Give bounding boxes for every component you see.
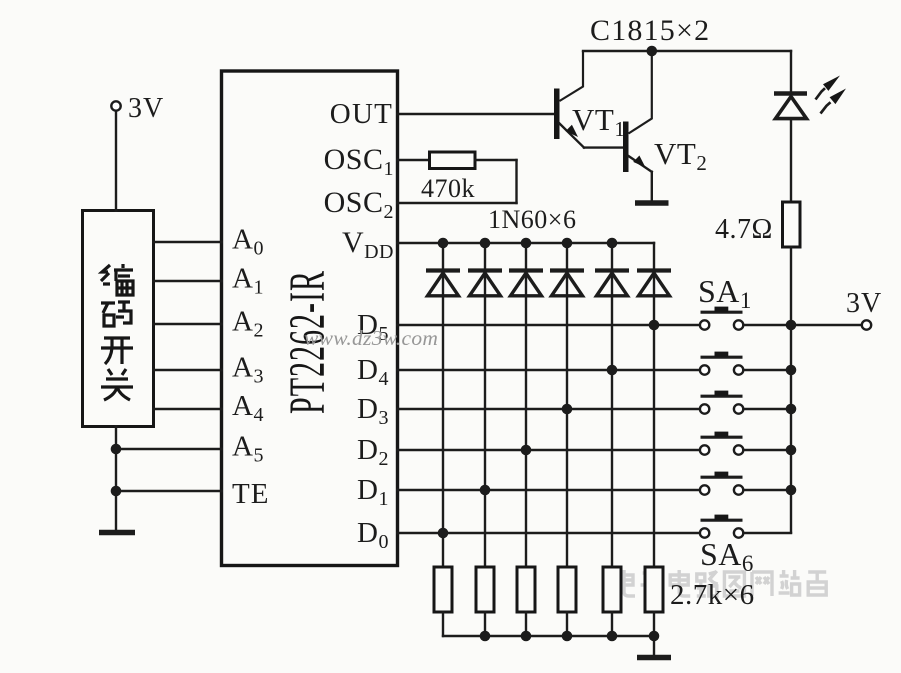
wire column 5 vertical [611, 243, 613, 567]
wire SA2 to right rail [743, 369, 791, 371]
diode VD4 (1N60) bar [550, 268, 584, 272]
encoder box label char 编 [101, 264, 133, 295]
switch SA5 right terminal [734, 485, 743, 494]
node junction TE [111, 486, 122, 497]
wire encoder box to pin A2 [154, 323, 222, 325]
wire SA4 to right rail [743, 449, 791, 451]
switch SA2 right terminal [734, 365, 743, 374]
switch SA3 left terminal [700, 404, 709, 413]
node junction VDD column 4 [562, 238, 573, 249]
node junction bottom rail [607, 631, 618, 642]
transistor Q2 VT2 base bar [623, 122, 629, 173]
transistor Q1 VT1 collector [560, 51, 584, 101]
wire column 2 vertical [484, 243, 486, 567]
wire bottom rail [443, 635, 654, 637]
wire OSC1 to resistor [398, 159, 431, 161]
wire A5 to left vertical [116, 448, 222, 450]
wire bottom rail to ground [653, 636, 655, 655]
node junction right rail [786, 445, 797, 456]
node 3V supply (right) [862, 320, 871, 329]
wire loop vertical [515, 160, 517, 203]
svg-text:OUT: OUT [330, 98, 393, 130]
resistor R6 (2.7k) [645, 567, 663, 612]
wire resistor 4.7 to 3V rail [790, 247, 792, 325]
LED emission arrow 2 [821, 102, 831, 113]
node junction VDD column 3 [521, 238, 532, 249]
ground (VT2 emitter) [635, 200, 669, 206]
wire SA6 to right rail [743, 532, 791, 534]
transistor Q1 VT1 emitter [560, 124, 585, 148]
wire right rail vertical [790, 325, 792, 533]
svg-text:1N60×6: 1N60×6 [488, 205, 576, 234]
node 3V supply (left) [111, 101, 120, 110]
transistor Q2 VT2 collector [629, 51, 652, 134]
switch SA6 left terminal [700, 528, 709, 537]
LED VD (IR emitting diode) cathode bar [774, 91, 807, 96]
wire encoder box to pin A4 [154, 408, 222, 410]
wire OUT to VT1 base [398, 113, 555, 115]
LED VD triangle [776, 97, 807, 119]
switch SA1 button [701, 311, 743, 314]
wire column 4 vertical [566, 243, 568, 567]
watermark chinese site name [615, 570, 826, 596]
wire R6 to bottom rail [653, 612, 655, 636]
node junction right rail [786, 365, 797, 376]
svg-text:3V: 3V [846, 288, 882, 319]
wire pin D2 to switch SA4 [398, 449, 700, 451]
wire pin D5 to switch SA1 [398, 324, 700, 326]
wire collector rail (top) [583, 50, 791, 52]
wire pin D1 to switch SA5 [398, 489, 700, 491]
switch SA2 button [701, 356, 743, 359]
resistor R2 (2.7k) [476, 567, 494, 612]
diode VD3 (1N60) triangle [511, 273, 542, 296]
diode VD1 (1N60) triangle [428, 273, 459, 296]
diode VD5 (1N60) triangle [597, 273, 628, 296]
svg-text:OSC1: OSC1 [324, 143, 394, 180]
switch SA4 button [701, 436, 743, 439]
switch SA2 left terminal [700, 365, 709, 374]
switch SA6 right terminal [734, 528, 743, 537]
svg-text:TE: TE [232, 478, 269, 510]
diode VD3 (1N60) bar [509, 268, 543, 272]
diode VD1 (1N60) bar [426, 268, 460, 272]
diode VD5 (1N60) bar [595, 268, 629, 272]
wire 3V to encoder box [115, 111, 117, 211]
diode VD4 (1N60) triangle [552, 273, 583, 296]
switch SA3 right terminal [734, 404, 743, 413]
wire pin D0 to switch SA6 [398, 532, 700, 534]
wire VT1 emitter to VT2 base [584, 146, 623, 148]
node junction D3 / column [562, 404, 573, 415]
node junction VDD column 5 [607, 238, 618, 249]
wire SA3 to right rail [743, 408, 791, 410]
resistor R3 (2.7k) [517, 567, 535, 612]
wire encoder box to pin A0 [154, 241, 222, 243]
node junction D2 / column [521, 445, 532, 456]
IC U1 PT2262-IR body [222, 71, 398, 566]
wire resistor to loop corner [475, 159, 517, 161]
svg-text:OSC2: OSC2 [324, 186, 394, 223]
node junction A5 [111, 444, 122, 455]
switch SA4 right terminal [734, 445, 743, 454]
svg-text:470k: 470k [421, 174, 475, 203]
LED emission arrow 1 [816, 88, 826, 99]
wire R1 to bottom rail [442, 612, 444, 636]
svg-text:3V: 3V [128, 93, 164, 124]
resistor 4.7 ohm [783, 202, 801, 247]
svg-text:C1815×2: C1815×2 [590, 14, 710, 47]
node junction bottom rail [521, 631, 532, 642]
wire SA1 row to 3V terminal [791, 324, 862, 326]
svg-text:www.dz3w.com: www.dz3w.com [304, 326, 438, 350]
encoder box label char 码 [101, 302, 131, 326]
resistor R5 (2.7k) [603, 567, 621, 612]
ground (below encoder box) [99, 530, 135, 536]
node junction VT2 collector / rail [647, 46, 658, 57]
wire loop to OSC2 [398, 202, 517, 204]
wire SA1 to right rail [743, 324, 791, 326]
svg-text:2.7k×6: 2.7k×6 [670, 579, 755, 611]
wire R3 to bottom rail [525, 612, 527, 636]
wire encoder box to pin A1 [154, 280, 222, 282]
wire VT2 emitter to ground [651, 172, 653, 201]
node junction VDD column 2 [480, 238, 491, 249]
switch SA5 left terminal [700, 485, 709, 494]
encoder box label char 关 [101, 369, 133, 400]
wire column 3 vertical [525, 243, 527, 567]
wire column 6 vertical [653, 243, 655, 567]
node junction right rail [786, 485, 797, 496]
switch SA5 button [701, 476, 743, 479]
node junction bottom rail [649, 631, 660, 642]
node junction right rail SA1 [786, 320, 797, 331]
wire pin D3 to switch SA3 [398, 408, 700, 410]
wire LED to resistor 4.7 [790, 119, 792, 202]
diode VD6 (1N60) triangle [639, 273, 670, 296]
switch SA4 left terminal [700, 445, 709, 454]
wire rail to LED [790, 51, 792, 92]
diode VD6 (1N60) bar [637, 268, 671, 272]
encoder switch box (编码开关) [83, 211, 154, 427]
wire SA5 to right rail [743, 489, 791, 491]
node junction D5 / column [649, 320, 660, 331]
resistor R1 (2.7k) [434, 567, 452, 612]
switch SA3 button [701, 395, 743, 398]
wire R2 to bottom rail [484, 612, 486, 636]
wire encoder box bottom to ground [115, 427, 117, 531]
node junction D4 / column [607, 365, 618, 376]
wire R5 to bottom rail [611, 612, 613, 636]
node junction right rail [786, 404, 797, 415]
transistor Q2 VT2 emitter [629, 156, 652, 172]
wire VDD rail [398, 242, 655, 244]
node junction VDD column 1 [438, 238, 449, 249]
encoder box label char 开 [101, 338, 133, 364]
transistor Q1 VT1 base bar [554, 89, 560, 140]
svg-text:4.7Ω: 4.7Ω [715, 214, 773, 245]
resistor 470k [430, 152, 476, 169]
resistor R4 (2.7k) [558, 567, 576, 612]
node junction bottom rail [480, 631, 491, 642]
switch SA1 left terminal [700, 320, 709, 329]
wire TE to left vertical [116, 490, 222, 492]
switch SA1 right terminal [734, 320, 743, 329]
diode VD2 (1N60) triangle [470, 273, 501, 296]
wire column 1 vertical [442, 243, 444, 567]
wire pin D4 to switch SA2 [398, 369, 700, 371]
node junction D0 / column [438, 528, 449, 539]
node junction D1 / column [480, 485, 491, 496]
node junction bottom rail [562, 631, 573, 642]
wire R4 to bottom rail [566, 612, 568, 636]
switch SA6 button [701, 519, 743, 522]
ground (bottom) [637, 655, 671, 661]
diode VD2 (1N60) bar [468, 268, 502, 272]
wire encoder box to pin A3 [154, 369, 222, 371]
